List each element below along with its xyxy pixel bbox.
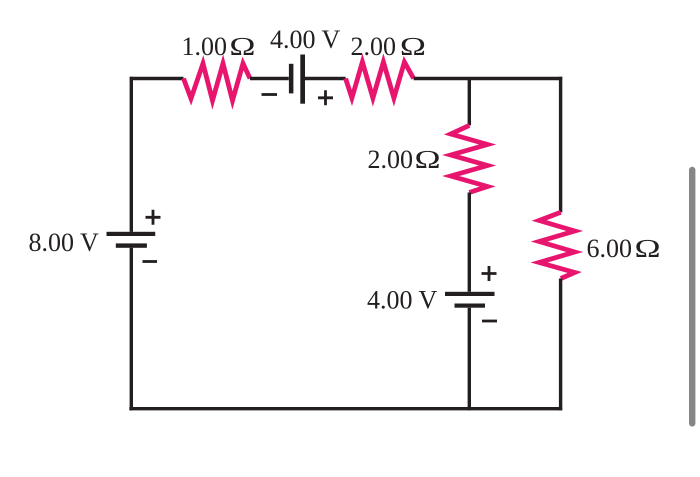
resistor 6.00 ohm (right, vertical) [539, 212, 575, 278]
svg-text:1.00: 1.00 [182, 32, 228, 61]
label 4.00 V (top) [270, 25, 341, 54]
label 2.00 ohm (top) [351, 32, 427, 61]
wire: right side, top segment [559, 77, 562, 213]
wire: top side, left segment [130, 77, 184, 80]
battery 4.00 V (middle): short negative plate [455, 304, 486, 308]
svg-text:Ω: Ω [634, 234, 661, 263]
svg-text:2.00: 2.00 [351, 32, 397, 61]
svg-text:2.00: 2.00 [368, 145, 414, 174]
polarity minus (middle battery) [482, 320, 497, 323]
wire: left side, bottom segment [130, 248, 133, 411]
wire: left side, top segment [130, 77, 133, 232]
svg-text:8.00 V: 8.00 V [29, 228, 100, 257]
label 4.00 V (middle) [367, 286, 438, 315]
wire: between R1 and battery [250, 77, 289, 80]
polarity plus (top battery) [318, 90, 333, 105]
battery 4.00 V (top): long positive plate [300, 55, 305, 104]
wire: top side, right segment [414, 77, 563, 80]
polarity plus (left battery) [146, 210, 161, 225]
polarity plus (middle battery) [482, 266, 497, 281]
resistor 1.00 ohm (top left, horizontal) [184, 64, 251, 101]
label 8.00 V [29, 228, 100, 257]
wire: bottom side [129, 407, 562, 410]
svg-text:4.00 V: 4.00 V [270, 25, 341, 54]
polarity minus (left battery) [143, 260, 158, 263]
resistor 2.00 ohm (middle, vertical) [451, 125, 488, 192]
svg-text:6.00: 6.00 [587, 234, 633, 263]
wire: middle branch, top segment [468, 79, 471, 126]
battery 4.00 V (middle, vertical): long positive plate [445, 292, 495, 296]
label 1.00 ohm [182, 32, 257, 61]
wire: middle branch, middle segment [468, 193, 471, 292]
wire: right side, bottom segment [559, 279, 562, 411]
label 6.00 ohm [587, 234, 662, 263]
scrollbar thumb (right edge) [689, 167, 695, 427]
battery 4.00 V (top, horizontal): short negative plate [289, 64, 294, 94]
svg-text:Ω: Ω [229, 32, 256, 61]
resistor 2.00 ohm (top right, horizontal) [346, 62, 414, 98]
battery 8.00 V: short negative plate [116, 243, 147, 247]
svg-text:4.00 V: 4.00 V [367, 286, 438, 315]
wire: middle branch, bottom segment [468, 308, 471, 411]
svg-text:Ω: Ω [414, 145, 441, 174]
wire: between battery and R2 [305, 77, 346, 80]
svg-text:Ω: Ω [400, 32, 427, 61]
label 2.00 ohm (middle) [368, 145, 442, 174]
polarity minus (top battery) [262, 93, 278, 96]
battery 8.00 V (left, vertical): long positive plate [107, 232, 156, 236]
